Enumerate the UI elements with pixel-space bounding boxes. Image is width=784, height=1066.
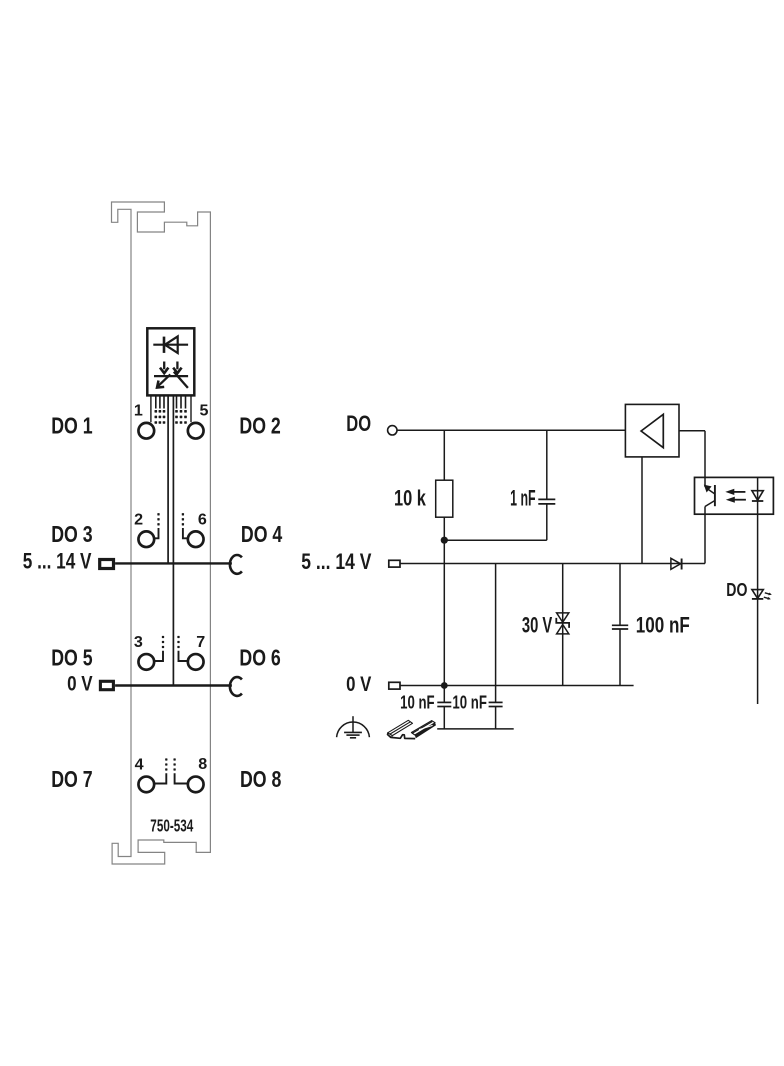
wire 5...14V rail down to TVS diode [562, 564, 564, 686]
LED of optocoupler U3 [757, 477, 759, 514]
chip diode symbol [153, 336, 188, 353]
spring clamp wire terminal 4 [154, 773, 166, 783]
earth ground symbol [337, 716, 370, 738]
dotted wire continuation terminal 7 [177, 646, 179, 648]
svg-text:0 V: 0 V [346, 671, 372, 696]
bidirectional suppressor diode 30V [557, 613, 569, 622]
terminal 6 clamp opening [188, 531, 204, 547]
svg-text:2: 2 [134, 510, 143, 528]
diode D1 on 5...14V rail [671, 558, 681, 569]
terminal 8 clamp opening [188, 777, 204, 793]
dotted wire continuation terminal 8 [173, 768, 175, 770]
ribbon wires to terminal 1 and 5 [150, 395, 152, 422]
DO status LED [752, 590, 763, 599]
bottom shadow outline with notch [387, 734, 415, 738]
capacitor 10nF (left) [437, 702, 451, 706]
svg-text:100 nF: 100 nF [636, 613, 690, 638]
terminal 1 clamp opening [138, 423, 154, 439]
svg-text:DO 2: DO 2 [239, 413, 280, 439]
chip phototransistor symbol [154, 362, 188, 388]
DIN rail symbol [387, 720, 436, 738]
spring clamp wire terminal 7 [179, 651, 188, 661]
terminal square 0V [100, 681, 113, 689]
right rail top face [411, 721, 435, 735]
svg-text:10 k: 10 k [394, 486, 426, 511]
terminal 2 clamp opening [138, 531, 154, 547]
svg-text:DO 7: DO 7 [51, 766, 92, 792]
power jumper contact 0V [230, 677, 242, 696]
wire DO node down to resistor [443, 430, 445, 480]
node DO input terminal circle [388, 426, 397, 435]
phototransistor of optocoupler U3 [704, 477, 706, 486]
svg-text:4: 4 [135, 755, 144, 773]
wire 5...14V feed through module [115, 562, 232, 564]
wire buffer output to optocoupler [679, 430, 705, 432]
svg-text:DO: DO [346, 411, 371, 436]
svg-text:5 ... 14 V: 5 ... 14 V [301, 549, 371, 574]
svg-text:750-534: 750-534 [150, 815, 193, 835]
svg-text:7: 7 [196, 633, 205, 651]
terminal 7 clamp opening [188, 654, 204, 670]
svg-text:0 V: 0 V [67, 670, 93, 695]
wire 0V feed through module [115, 684, 232, 686]
right rail dark underside [415, 723, 436, 739]
left rail top face [388, 720, 413, 735]
svg-text:DO: DO [726, 579, 747, 600]
junction node resistor/1nF capacitor [441, 537, 448, 544]
ribbon stubs [156, 395, 186, 408]
svg-text:DO 4: DO 4 [241, 521, 282, 547]
spring clamp wire terminal 8 [175, 773, 188, 783]
dotted wire continuation terminal 4 [165, 768, 167, 770]
buffer amplifier U2 [625, 404, 679, 457]
wire 5...14V rail [400, 563, 705, 565]
wire resistor bottom down to 0V rail and 10nF cap [443, 517, 445, 702]
dotted wire continuation terminal 3 [162, 646, 164, 648]
wire ground bus to DIN rail [437, 728, 514, 730]
spring clamp wire terminal 3 [154, 651, 163, 661]
svg-text:3: 3 [134, 633, 143, 651]
wire DO input to buffer U2 [397, 429, 625, 431]
wire junction to 1nF capacitor bottom [444, 539, 547, 541]
driver chip box U1 [147, 328, 194, 395]
svg-text:DO 6: DO 6 [239, 645, 280, 671]
terminal square 5...14V [100, 560, 114, 569]
svg-text:1 nF: 1 nF [510, 486, 536, 511]
svg-text:30 V: 30 V [522, 613, 553, 638]
svg-text:5 ... 14 V: 5 ... 14 V [23, 548, 92, 573]
module silhouette outline [112, 202, 211, 864]
module texts [51, 413, 282, 793]
optocoupler light coupling arrows [733, 491, 745, 493]
svg-text:10 nF: 10 nF [400, 692, 435, 713]
svg-text:6: 6 [198, 510, 207, 528]
wire second filter branch 5...14V to ground bus [495, 564, 497, 703]
terminal square 0V (schematic) [389, 682, 400, 689]
dotted wire continuation terminal 2 [157, 523, 159, 525]
svg-text:8: 8 [198, 755, 207, 773]
ribbon bus pair [167, 395, 169, 563]
terminal square 5...14V (schematic) [389, 560, 400, 567]
svg-text:5: 5 [200, 402, 209, 420]
DO status LED emission arrows [764, 593, 772, 600]
svg-text:DO 8: DO 8 [240, 766, 281, 792]
wire DO node down to 1nF capacitor [546, 430, 548, 499]
left rail end cap [387, 733, 392, 738]
clamp hooks + dots [154, 513, 187, 783]
svg-text:1: 1 [134, 402, 143, 420]
svg-text:DO 5: DO 5 [51, 645, 92, 671]
wire and capacitor 100nF branch [619, 564, 621, 626]
svg-text:DO 3: DO 3 [51, 521, 92, 547]
wire buffer supply to 5...14V rail [641, 457, 643, 564]
capacitor 10nF (right) [489, 702, 503, 706]
wire 0V rail [400, 685, 634, 687]
terminal 5 clamp opening [188, 423, 204, 439]
junction node on 0V rail [441, 682, 448, 689]
schematic texts [301, 411, 690, 696]
resistor R1 10k [436, 480, 453, 517]
spring clamp wire terminal 6 [183, 528, 188, 538]
terminal 3 clamp opening [138, 654, 154, 670]
svg-text:DO 1: DO 1 [51, 413, 92, 439]
dotted wire continuation terminal 6 [182, 523, 184, 525]
terminal circles [138, 423, 203, 792]
optocoupler U3 [695, 477, 774, 514]
ribbon dotted grid [155, 410, 187, 424]
svg-text:10 nF: 10 nF [452, 692, 487, 713]
spring clamp wire terminal 2 [154, 528, 158, 538]
wire optocoupler LED to DO status LED [757, 514, 759, 704]
power jumper contact 5...14V [230, 555, 242, 574]
terminal 4 clamp opening [138, 777, 154, 793]
